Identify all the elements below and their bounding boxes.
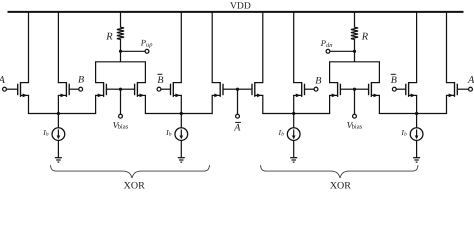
node: R / Pup junction (left) — [119, 50, 122, 53]
wire: node to Pdn terminal — [330, 50, 355, 52]
current source Ib2 — [175, 128, 188, 141]
label Ib2 — [165, 128, 172, 138]
label Ib1 — [42, 128, 49, 138]
wire: tail bus 2 — [145, 113, 213, 115]
terminal A (left) — [3, 87, 7, 91]
terminal Pdn — [326, 49, 330, 53]
transistor M12 (input A (right)) — [446, 82, 457, 97]
wire: M3 source down to tail bus — [95, 95, 97, 113]
wire: Pdn node to drain box (right Vbias pair) — [354, 51, 356, 62]
wire: bus 1 to current source Ib1 — [57, 114, 59, 128]
wire: M1 drain to VDD rail — [28, 12, 30, 83]
wire: Vbias node to M10 gate (right) — [355, 88, 369, 90]
wire: M4 source down to tail bus — [144, 95, 146, 113]
wire: current source Ib1 to ground — [57, 140, 59, 157]
wire: current source Ib3 to ground — [293, 140, 295, 157]
current source Ib1 — [52, 128, 65, 141]
wire: M5 drain to VDD rail — [180, 12, 182, 83]
svg-text:R: R — [105, 31, 113, 42]
wire: VDD to resistor R (right) — [354, 12, 356, 28]
junction: tail bus 1 to current source — [57, 112, 60, 115]
wire: terminal B-bar to M5 gate — [161, 88, 171, 90]
wire: bus 2 to current source Ib2 — [180, 114, 182, 128]
label Ib4 — [400, 128, 407, 138]
wire: Vbias node down to terminal (left) — [120, 89, 122, 114]
wire: box left leg / M3 drain — [95, 62, 97, 83]
svg-text:dn: dn — [326, 42, 332, 49]
resistor R (right) — [351, 27, 358, 39]
wire: drain box top (right) — [329, 61, 380, 63]
transistor M7 (input A-bar pair right) — [252, 82, 263, 97]
label Vbias (right) — [347, 120, 363, 130]
svg-text:VDD: VDD — [230, 0, 251, 11]
transistor M11 (input B-bar (right XOR)) — [406, 82, 417, 97]
wire: tail bus 3 — [262, 113, 330, 115]
terminal A (right) — [469, 87, 473, 91]
wire: A-bar node to M7 gate — [238, 88, 253, 90]
wire: box right leg / M10 drain — [378, 62, 380, 83]
wire: Pup node to drain box (left Vbias pair) — [120, 51, 122, 62]
transistor M3 (Vbias pair left (left XOR)) — [95, 82, 106, 97]
wire: M9 gate to Vbias node (right) — [340, 88, 354, 90]
terminal Vbias (left) — [119, 114, 123, 118]
wire: M2 source down to tail bus — [57, 95, 59, 113]
transistor M1 (input A) — [18, 82, 29, 97]
junction: tail bus 2 to current source — [180, 112, 183, 115]
svg-text:bias: bias — [118, 123, 129, 130]
svg-text:B: B — [157, 75, 163, 86]
wire: tail bus 1 — [28, 113, 96, 115]
current source Ib4 — [410, 128, 423, 141]
svg-text:B: B — [315, 75, 321, 86]
terminal B-bar (left) — [157, 87, 161, 91]
ground (Ib2) — [178, 158, 185, 162]
svg-text:b: b — [281, 131, 284, 137]
wire: M6 source down to tail bus — [211, 95, 213, 113]
wire: bus 3 to current source Ib3 — [293, 114, 295, 128]
wire: M7 source down to tail bus — [262, 95, 264, 113]
wire: current source Ib2 to ground — [180, 140, 182, 157]
wire: M8 gate to terminal B (right) — [305, 88, 315, 90]
wire: current source Ib4 to ground — [416, 140, 418, 157]
resistor R (left) — [117, 27, 124, 39]
svg-text:B: B — [78, 74, 84, 85]
brace: left XOR group — [51, 165, 210, 178]
svg-text:B: B — [391, 75, 397, 86]
svg-text:A: A — [467, 75, 474, 86]
svg-text:up: up — [146, 41, 152, 48]
node: R / Pdn junction (right) — [353, 50, 356, 53]
transistor M4 (Vbias pair right (left XOR)) — [135, 82, 146, 97]
terminal A-bar — [236, 114, 240, 118]
label Vbias (left) — [113, 120, 129, 130]
wire: M6 drain to VDD rail — [211, 12, 213, 83]
svg-text:b: b — [404, 131, 407, 137]
ground (Ib4) — [413, 158, 420, 162]
wire: M7 drain to VDD rail — [262, 12, 264, 83]
svg-text:b: b — [46, 131, 49, 137]
transistor M6 (input A-bar pair left) — [212, 82, 223, 97]
wire: Vbias node to M4 gate (left) — [121, 88, 135, 90]
wire: M2 gate to terminal B — [69, 88, 79, 90]
node: A-bar gate junction — [236, 88, 239, 91]
transistor M10 (Vbias pair right (right XOR)) — [369, 82, 380, 97]
terminal B-bar (right) — [392, 87, 396, 91]
wire: M12 gate to terminal A (right) — [457, 88, 468, 90]
transistor M2 (input B) — [58, 82, 69, 97]
svg-text:R: R — [361, 31, 369, 42]
terminal Vbias (right) — [353, 114, 357, 118]
svg-text:b: b — [169, 131, 172, 137]
wire: M8 drain to VDD rail — [293, 12, 295, 83]
wire: M1 source down to tail bus — [28, 95, 30, 113]
wire: M5 source down to tail bus — [180, 95, 182, 113]
label Pdn — [320, 38, 333, 49]
ground (Ib3) — [290, 158, 297, 162]
svg-text:A: A — [233, 122, 241, 133]
terminal Pup — [145, 49, 149, 53]
label B-bar (right) — [391, 74, 397, 86]
wire: M2 drain to VDD rail — [57, 12, 59, 83]
terminal B (left) — [79, 87, 83, 91]
wire: M12 source down to tail bus — [446, 95, 448, 113]
power rail VDD — [8, 11, 464, 13]
svg-text:XOR: XOR — [124, 181, 145, 192]
transistor M8 (input B (right XOR)) — [293, 82, 304, 97]
node: Vbias gate junction (right) — [353, 88, 356, 91]
label B-bar (left) — [157, 74, 163, 86]
current source Ib3 — [287, 128, 300, 141]
label A-bar — [233, 122, 241, 133]
label Pup — [140, 38, 153, 49]
svg-text:bias: bias — [352, 123, 363, 130]
transistor M5 (input B-bar) — [171, 82, 182, 97]
wire: M11 source down to tail bus — [416, 95, 418, 113]
wire: resistor R (right) to Pdn node — [354, 39, 356, 51]
wire: box left leg / M9 drain — [329, 62, 331, 83]
label Ib3 — [278, 128, 285, 138]
node: Vbias gate junction (left) — [119, 88, 122, 91]
wire: M3 gate to Vbias node (left) — [106, 88, 120, 90]
wire: A-bar node down to terminal — [237, 89, 239, 114]
wire: Vbias node down to terminal (right) — [354, 89, 356, 114]
svg-text:XOR: XOR — [330, 181, 351, 192]
wire: terminal B-bar to M11 gate (right) — [396, 88, 406, 90]
wire: M6 gate to A-bar node — [223, 88, 238, 90]
wire: node to Pup terminal — [121, 50, 146, 52]
wire: VDD to resistor R (left) — [120, 12, 122, 28]
terminal B (right) — [314, 87, 318, 91]
ground (Ib1) — [55, 158, 62, 162]
junction: tail bus 3 to current source — [292, 112, 295, 115]
wire: M10 source down to tail bus — [378, 95, 380, 113]
wire: drain box top (left) — [95, 61, 146, 63]
svg-text:A: A — [0, 75, 6, 86]
wire: bus 4 to current source Ib4 — [416, 114, 418, 128]
wire: M12 drain to VDD rail — [446, 12, 448, 83]
wire: resistor R (left) to Pup node — [120, 39, 122, 51]
junction: tail bus 4 to current source — [415, 112, 418, 115]
wire: M11 drain to VDD rail — [416, 12, 418, 83]
wire: M8 source down to tail bus — [293, 95, 295, 113]
wire: M9 source down to tail bus — [329, 95, 331, 113]
wire: box right leg / M4 drain — [144, 62, 146, 83]
transistor M9 (Vbias pair left (right XOR)) — [329, 82, 340, 97]
brace: right XOR group — [261, 165, 419, 178]
wire: terminal A to M1 gate — [6, 88, 17, 90]
wire: tail bus 4 — [379, 113, 447, 115]
